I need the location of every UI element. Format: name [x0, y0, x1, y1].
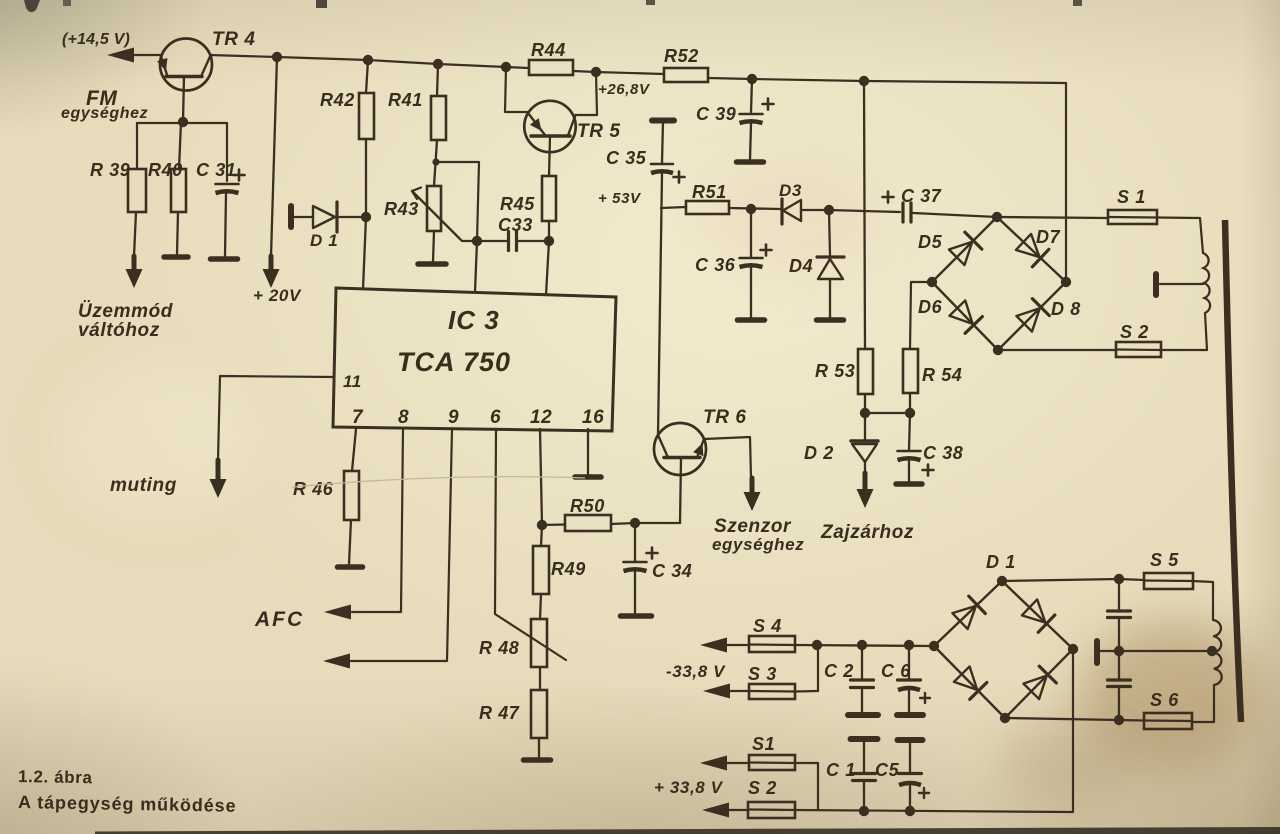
- arrow AFC: [324, 605, 351, 620]
- arrow Szenzor: [744, 478, 761, 511]
- svg-text:(+14,5 V): (+14,5 V): [62, 31, 130, 48]
- label C2: [824, 661, 854, 681]
- fuse S1: [1108, 210, 1157, 224]
- svg-text:egységhez: egységhez: [61, 105, 148, 122]
- node +20V rail a: [272, 52, 282, 62]
- label S4: [753, 616, 782, 636]
- resistor R49: [533, 546, 549, 619]
- caption A tapegyseg mukodese: [18, 792, 237, 816]
- wire TR4 base node: [137, 123, 227, 181]
- label TR6: [703, 407, 747, 428]
- svg-text:TR 5: TR 5: [577, 121, 621, 142]
- svg-text:8: 8: [398, 407, 409, 428]
- svg-text:D 2: D 2: [804, 443, 834, 463]
- wire R41 to C33 node: [436, 162, 479, 241]
- label IC 3: [448, 305, 500, 335]
- resistor R42: [359, 60, 374, 217]
- wire C33 nodes to IC3: [475, 241, 549, 295]
- svg-text:TR 4: TR 4: [212, 29, 256, 50]
- label FM egyseghez: [61, 87, 148, 122]
- arrow S2 lower: [702, 803, 729, 818]
- capacitor C6: [898, 645, 921, 712]
- resistor R50: [542, 515, 635, 531]
- label R52: [664, 46, 699, 66]
- paper scratch: [292, 477, 585, 487]
- ground R46: [338, 564, 363, 570]
- plus C6: [920, 693, 930, 703]
- node C2 top: [857, 640, 867, 650]
- bridge rectifier D5 D6 D7 D8: [927, 212, 1071, 355]
- svg-text:C 34: C 34: [652, 561, 692, 581]
- svg-text:D5: D5: [918, 232, 943, 252]
- label +53V: [598, 190, 642, 207]
- svg-text:S 2: S 2: [748, 778, 777, 798]
- svg-text:R 54: R 54: [922, 365, 962, 385]
- svg-text:R 46: R 46: [293, 479, 334, 499]
- label muting: [110, 475, 177, 496]
- wire +20V top rail: [210, 55, 529, 68]
- svg-text:D 1: D 1: [310, 231, 338, 250]
- label D2: [804, 443, 834, 463]
- label C35: [606, 148, 647, 168]
- svg-text:Szenzor: Szenzor: [714, 516, 792, 537]
- terminal C6: [897, 712, 923, 718]
- label R40: [148, 160, 183, 180]
- svg-text:+ 53V: + 53V: [598, 190, 642, 207]
- resistor R51: [686, 201, 729, 214]
- pin 12: [530, 407, 552, 428]
- svg-text:muting: muting: [110, 475, 177, 496]
- node C1 rail: [859, 806, 869, 816]
- transistor TR6: [654, 423, 706, 523]
- svg-text:TR 6: TR 6: [703, 407, 747, 428]
- wire S1 to coil: [1157, 218, 1203, 254]
- capacitor lower interwinding: [1108, 651, 1131, 720]
- plus C34: [647, 548, 658, 559]
- resistor R45: [542, 176, 556, 241]
- plus C39: [763, 99, 774, 110]
- label S1: [1117, 187, 1146, 207]
- resistor R44: [529, 60, 573, 75]
- wire pin16: [587, 429, 589, 474]
- svg-text:váltóhoz: váltóhoz: [78, 320, 160, 341]
- svg-text:1.2. ábra: 1.2. ábra: [18, 767, 93, 787]
- arrow muting: [210, 460, 227, 498]
- wire R53-R54 bottoms: [865, 412, 910, 414]
- label D6: [918, 297, 943, 317]
- node C34 top: [630, 518, 640, 528]
- label (+14,5V): [62, 31, 130, 48]
- svg-text:AFC: AFC: [254, 608, 304, 631]
- svg-text:12: 12: [530, 407, 552, 428]
- svg-text:S 2: S 2: [1120, 322, 1149, 342]
- wire S1 lower left: [727, 762, 749, 764]
- svg-text:S1: S1: [752, 734, 775, 754]
- winding upper: [1203, 253, 1210, 313]
- node R41 branch: [432, 158, 439, 165]
- transformer core bar: [1225, 220, 1241, 722]
- IC3 box: [333, 288, 616, 431]
- wire R43 to ground: [433, 231, 434, 262]
- wire pin7: [352, 429, 356, 471]
- capacitor C35: [651, 121, 674, 174]
- label C1: [826, 760, 856, 780]
- label R39: [90, 160, 130, 180]
- resistor R53: [858, 349, 873, 413]
- ground C31: [211, 256, 238, 262]
- label TR5: [577, 121, 621, 142]
- node S6 branch: [1114, 715, 1124, 725]
- svg-text:D6: D6: [918, 297, 943, 317]
- label R47: [479, 703, 520, 723]
- capacitor C34: [624, 523, 647, 613]
- plus C35: [674, 172, 685, 183]
- wire pin6: [495, 429, 566, 660]
- wire S3 branch: [817, 645, 819, 691]
- node R42 top: [363, 55, 373, 65]
- svg-text:+26,8V: +26,8V: [598, 81, 651, 98]
- svg-text:R43: R43: [384, 199, 419, 219]
- transistor TR4: [157, 39, 212, 123]
- svg-text:+ 20V: + 20V: [253, 286, 302, 305]
- node C33 left: [472, 236, 482, 246]
- label Szenzor egysighez: [712, 516, 804, 554]
- fuse S1 lower: [749, 755, 795, 770]
- wire +33.8 rail: [795, 649, 1073, 812]
- label C34: [652, 561, 692, 581]
- plus C31: [234, 170, 245, 181]
- label R42: [320, 90, 355, 110]
- label D4: [789, 256, 813, 276]
- label R54: [922, 365, 962, 385]
- ground R40: [164, 254, 188, 260]
- svg-text:+ 33,8 V: + 33,8 V: [654, 778, 724, 797]
- label R49: [551, 559, 586, 579]
- label S6: [1150, 690, 1179, 710]
- wire pin8 to AFC: [352, 429, 403, 612]
- arrow S4: [700, 638, 727, 653]
- wire coil to S2: [1161, 313, 1207, 350]
- label R44: [531, 40, 566, 60]
- wire TR6 collector: [704, 437, 751, 478]
- capacitor C36: [740, 209, 763, 317]
- fuse S6: [1144, 713, 1192, 729]
- caption 1.2. abra: [18, 767, 93, 787]
- svg-text:IC 3: IC 3: [448, 305, 500, 335]
- wire pin12: [540, 429, 542, 525]
- label S1 lower: [752, 734, 775, 754]
- node C5 rail: [905, 806, 915, 816]
- label C38: [923, 443, 963, 463]
- svg-text:6: 6: [490, 407, 501, 428]
- node C39 top: [747, 74, 757, 84]
- svg-text:C 31: C 31: [196, 160, 236, 180]
- wire coil to S6: [1192, 685, 1214, 722]
- svg-text:9: 9: [448, 407, 459, 428]
- label R48: [479, 638, 519, 658]
- ground D4: [817, 317, 844, 323]
- plus C38: [923, 465, 934, 476]
- svg-text:C5: C5: [875, 760, 900, 780]
- svg-text:C 6: C 6: [881, 661, 911, 681]
- resistor R54: [903, 349, 918, 413]
- capacitor C5: [899, 741, 922, 811]
- svg-text:D3: D3: [779, 181, 802, 200]
- wire pin9: [351, 429, 452, 661]
- wire +26.8V feed down to bridge right node: [1065, 83, 1067, 282]
- node tap cap: [1114, 646, 1124, 656]
- wire TR5 left lead: [505, 67, 527, 112]
- node C33 right: [544, 236, 554, 246]
- wire to R49: [541, 525, 542, 546]
- node S3 branch: [812, 640, 822, 650]
- fuse S2: [1116, 342, 1161, 357]
- svg-text:egységhez: egységhez: [712, 535, 804, 554]
- svg-text:S 5: S 5: [1150, 550, 1179, 570]
- svg-text:A tápegység működése: A tápegység működése: [18, 792, 237, 816]
- label D7: [1036, 227, 1061, 247]
- page edge marks top: [24, 0, 1082, 12]
- fuse S3: [749, 684, 795, 699]
- wire 26.8V down to R53: [864, 81, 865, 349]
- wire S5 to coil: [1193, 581, 1213, 620]
- label S3: [748, 664, 777, 684]
- label S2: [1120, 322, 1149, 342]
- wire S4 left: [727, 644, 749, 646]
- wire +53V rail left: [661, 207, 686, 208]
- svg-text:R45: R45: [500, 194, 535, 214]
- svg-text:D 8: D 8: [1051, 299, 1081, 319]
- svg-text:Üzemmód: Üzemmód: [78, 301, 173, 322]
- center tap lower: [1097, 641, 1212, 663]
- wire S2 lower left: [729, 809, 748, 811]
- label R43: [384, 199, 419, 219]
- label C5: [875, 760, 900, 780]
- label D1: [310, 231, 338, 250]
- label R53: [815, 361, 855, 381]
- wire pin11 to muting: [218, 376, 334, 460]
- wire S6 to bridge bottom: [1005, 718, 1144, 721]
- terminal C2: [848, 712, 878, 718]
- svg-text:R 53: R 53: [815, 361, 855, 381]
- center tap upper: [1156, 274, 1203, 295]
- node C36 top: [746, 204, 756, 214]
- resistor R47: [531, 690, 547, 757]
- label R41: [388, 90, 423, 110]
- resistor R41: [431, 64, 446, 186]
- label Zajzarhoz: [820, 522, 914, 543]
- svg-text:TCA 750: TCA 750: [397, 347, 511, 377]
- pin 9: [448, 407, 459, 428]
- label D5: [918, 232, 943, 252]
- arrow S1 lower: [700, 756, 727, 771]
- svg-text:C 37: C 37: [901, 186, 942, 206]
- wire node to TR6 emitter: [635, 522, 680, 524]
- svg-text:C 1: C 1: [826, 760, 856, 780]
- svg-text:R 39: R 39: [90, 160, 130, 180]
- label C31: [196, 160, 236, 180]
- pin 6: [490, 407, 501, 428]
- label C39: [696, 104, 736, 124]
- label TR4: [212, 29, 256, 50]
- wire rail R51-D3: [729, 208, 780, 209]
- wire +20V drop: [271, 57, 277, 256]
- wire top rail R52 to +26.8 node: [708, 78, 1066, 83]
- ground R47: [524, 757, 551, 763]
- label D8: [1051, 299, 1081, 319]
- label AFC: [254, 608, 304, 631]
- svg-text:R51: R51: [692, 182, 727, 202]
- svg-text:R41: R41: [388, 90, 423, 110]
- resistor R40: [171, 122, 186, 254]
- winding lower: [1213, 620, 1222, 685]
- svg-text:D4: D4: [789, 256, 813, 276]
- fuse S2 lower: [748, 802, 795, 818]
- svg-text:D 1: D 1: [986, 552, 1016, 572]
- wire -33.8 rail: [795, 645, 934, 646]
- svg-text:S 6: S 6: [1150, 690, 1179, 710]
- bridge rectifier D1: [929, 576, 1078, 723]
- svg-text:R44: R44: [531, 40, 566, 60]
- svg-text:R 47: R 47: [479, 703, 520, 723]
- fuse S4: [749, 636, 795, 652]
- photo edge band bottom: [95, 827, 1280, 834]
- capacitor C33: [477, 232, 549, 251]
- label +33,8V: [654, 778, 724, 797]
- diode D4: [817, 210, 844, 317]
- wire S3 left: [730, 690, 749, 692]
- svg-text:16: 16: [582, 407, 604, 428]
- potentiometer R43: [412, 186, 477, 241]
- potentiometer R48: [531, 619, 547, 690]
- svg-text:-33,8 V: -33,8 V: [666, 662, 726, 681]
- svg-text:S 3: S 3: [748, 664, 777, 684]
- resistor R52: [664, 68, 708, 82]
- terminal C1: [851, 736, 878, 742]
- label S2 lower: [748, 778, 777, 798]
- svg-text:C 2: C 2: [824, 661, 854, 681]
- ground C39: [737, 159, 764, 165]
- pin 11: [343, 372, 362, 391]
- node R41 top: [433, 59, 443, 69]
- fuse S5: [1119, 573, 1193, 589]
- wire S1 branch: [795, 763, 818, 810]
- node center tap lower: [1207, 646, 1217, 656]
- node D1-R42: [361, 212, 371, 222]
- node C6 top: [904, 640, 914, 650]
- ground pin16: [575, 474, 601, 480]
- label Uzemmod valtohoz: [78, 301, 173, 341]
- label -33,8V: [666, 662, 726, 681]
- svg-text:Zajzárhoz: Zajzárhoz: [820, 522, 914, 543]
- label R46: [293, 479, 334, 499]
- arrow to (+14,5V): [107, 48, 161, 63]
- svg-text:C 36: C 36: [695, 255, 736, 275]
- wire rail D4-C37: [829, 210, 900, 212]
- pin 8: [398, 407, 409, 428]
- label R50: [570, 496, 605, 516]
- label +26,8V: [598, 81, 651, 98]
- diode D3: [782, 199, 829, 224]
- svg-text:7: 7: [352, 407, 364, 428]
- label + C37: [883, 186, 942, 206]
- wire S3 right: [795, 690, 818, 693]
- arrow S3: [703, 684, 730, 699]
- svg-text:R52: R52: [664, 46, 699, 66]
- node +26.8V: [859, 76, 869, 86]
- wire bridge top to S1: [997, 217, 1108, 218]
- label C6: [881, 661, 911, 681]
- ground R43: [418, 261, 446, 267]
- capacitor C38: [898, 413, 921, 482]
- wire R42 node to IC3: [363, 217, 366, 289]
- svg-text:R 48: R 48: [479, 638, 519, 658]
- node R50 left: [537, 520, 547, 530]
- label D3: [779, 181, 802, 200]
- node S5 branch: [1114, 574, 1124, 584]
- node R44 right: [591, 67, 601, 77]
- terminal C5: [898, 737, 923, 743]
- svg-text:R50: R50: [570, 496, 605, 516]
- diode D1: [291, 202, 366, 232]
- svg-text:R40: R40: [148, 160, 183, 180]
- arrow D2 down: [857, 473, 874, 508]
- label R51: [692, 182, 727, 202]
- label TCA 750: [397, 347, 511, 377]
- svg-text:C 35: C 35: [606, 148, 647, 168]
- plus C5: [919, 788, 929, 798]
- svg-text:D7: D7: [1036, 227, 1061, 247]
- capacitor C1: [853, 740, 876, 811]
- label R45 C33: [498, 194, 535, 235]
- node D4 top: [824, 205, 834, 215]
- capacitor upper interwinding: [1108, 579, 1131, 651]
- pin 7: [352, 407, 364, 428]
- label D1 bridge: [986, 552, 1016, 572]
- plus C36: [761, 245, 772, 256]
- wire TR5 collector: [576, 72, 598, 115]
- node D2 top: [860, 408, 870, 418]
- label + 20V: [253, 286, 302, 305]
- capacitor C31: [216, 184, 239, 256]
- arrow pin9: [323, 654, 350, 669]
- diode D2 zener: [851, 413, 878, 473]
- wire C35 to rail and TR6: [658, 174, 662, 435]
- pin 16: [582, 407, 604, 428]
- ground C38: [896, 481, 922, 487]
- svg-text:S 1: S 1: [1117, 187, 1146, 207]
- label C36: [695, 255, 736, 275]
- transistor TR5: [524, 101, 575, 176]
- arrow +20V down: [263, 256, 280, 288]
- wire bridge bottom to S2: [998, 349, 1116, 351]
- svg-text:C 38: C 38: [923, 443, 963, 463]
- ground C36: [738, 317, 765, 323]
- node TR5 branch: [501, 62, 511, 72]
- wire bridge left to R54: [910, 282, 932, 349]
- capacitor C2: [851, 645, 874, 712]
- svg-text:11: 11: [343, 372, 362, 391]
- resistor R46: [344, 471, 359, 564]
- ground C34: [621, 613, 652, 619]
- wire bridge top to S5: [1002, 579, 1119, 581]
- svg-text:R49: R49: [551, 559, 586, 579]
- resistor R39: [126, 169, 147, 288]
- label S5: [1150, 550, 1179, 570]
- svg-text:C 39: C 39: [696, 104, 736, 124]
- node C38 top: [905, 408, 915, 418]
- svg-text:R42: R42: [320, 90, 355, 110]
